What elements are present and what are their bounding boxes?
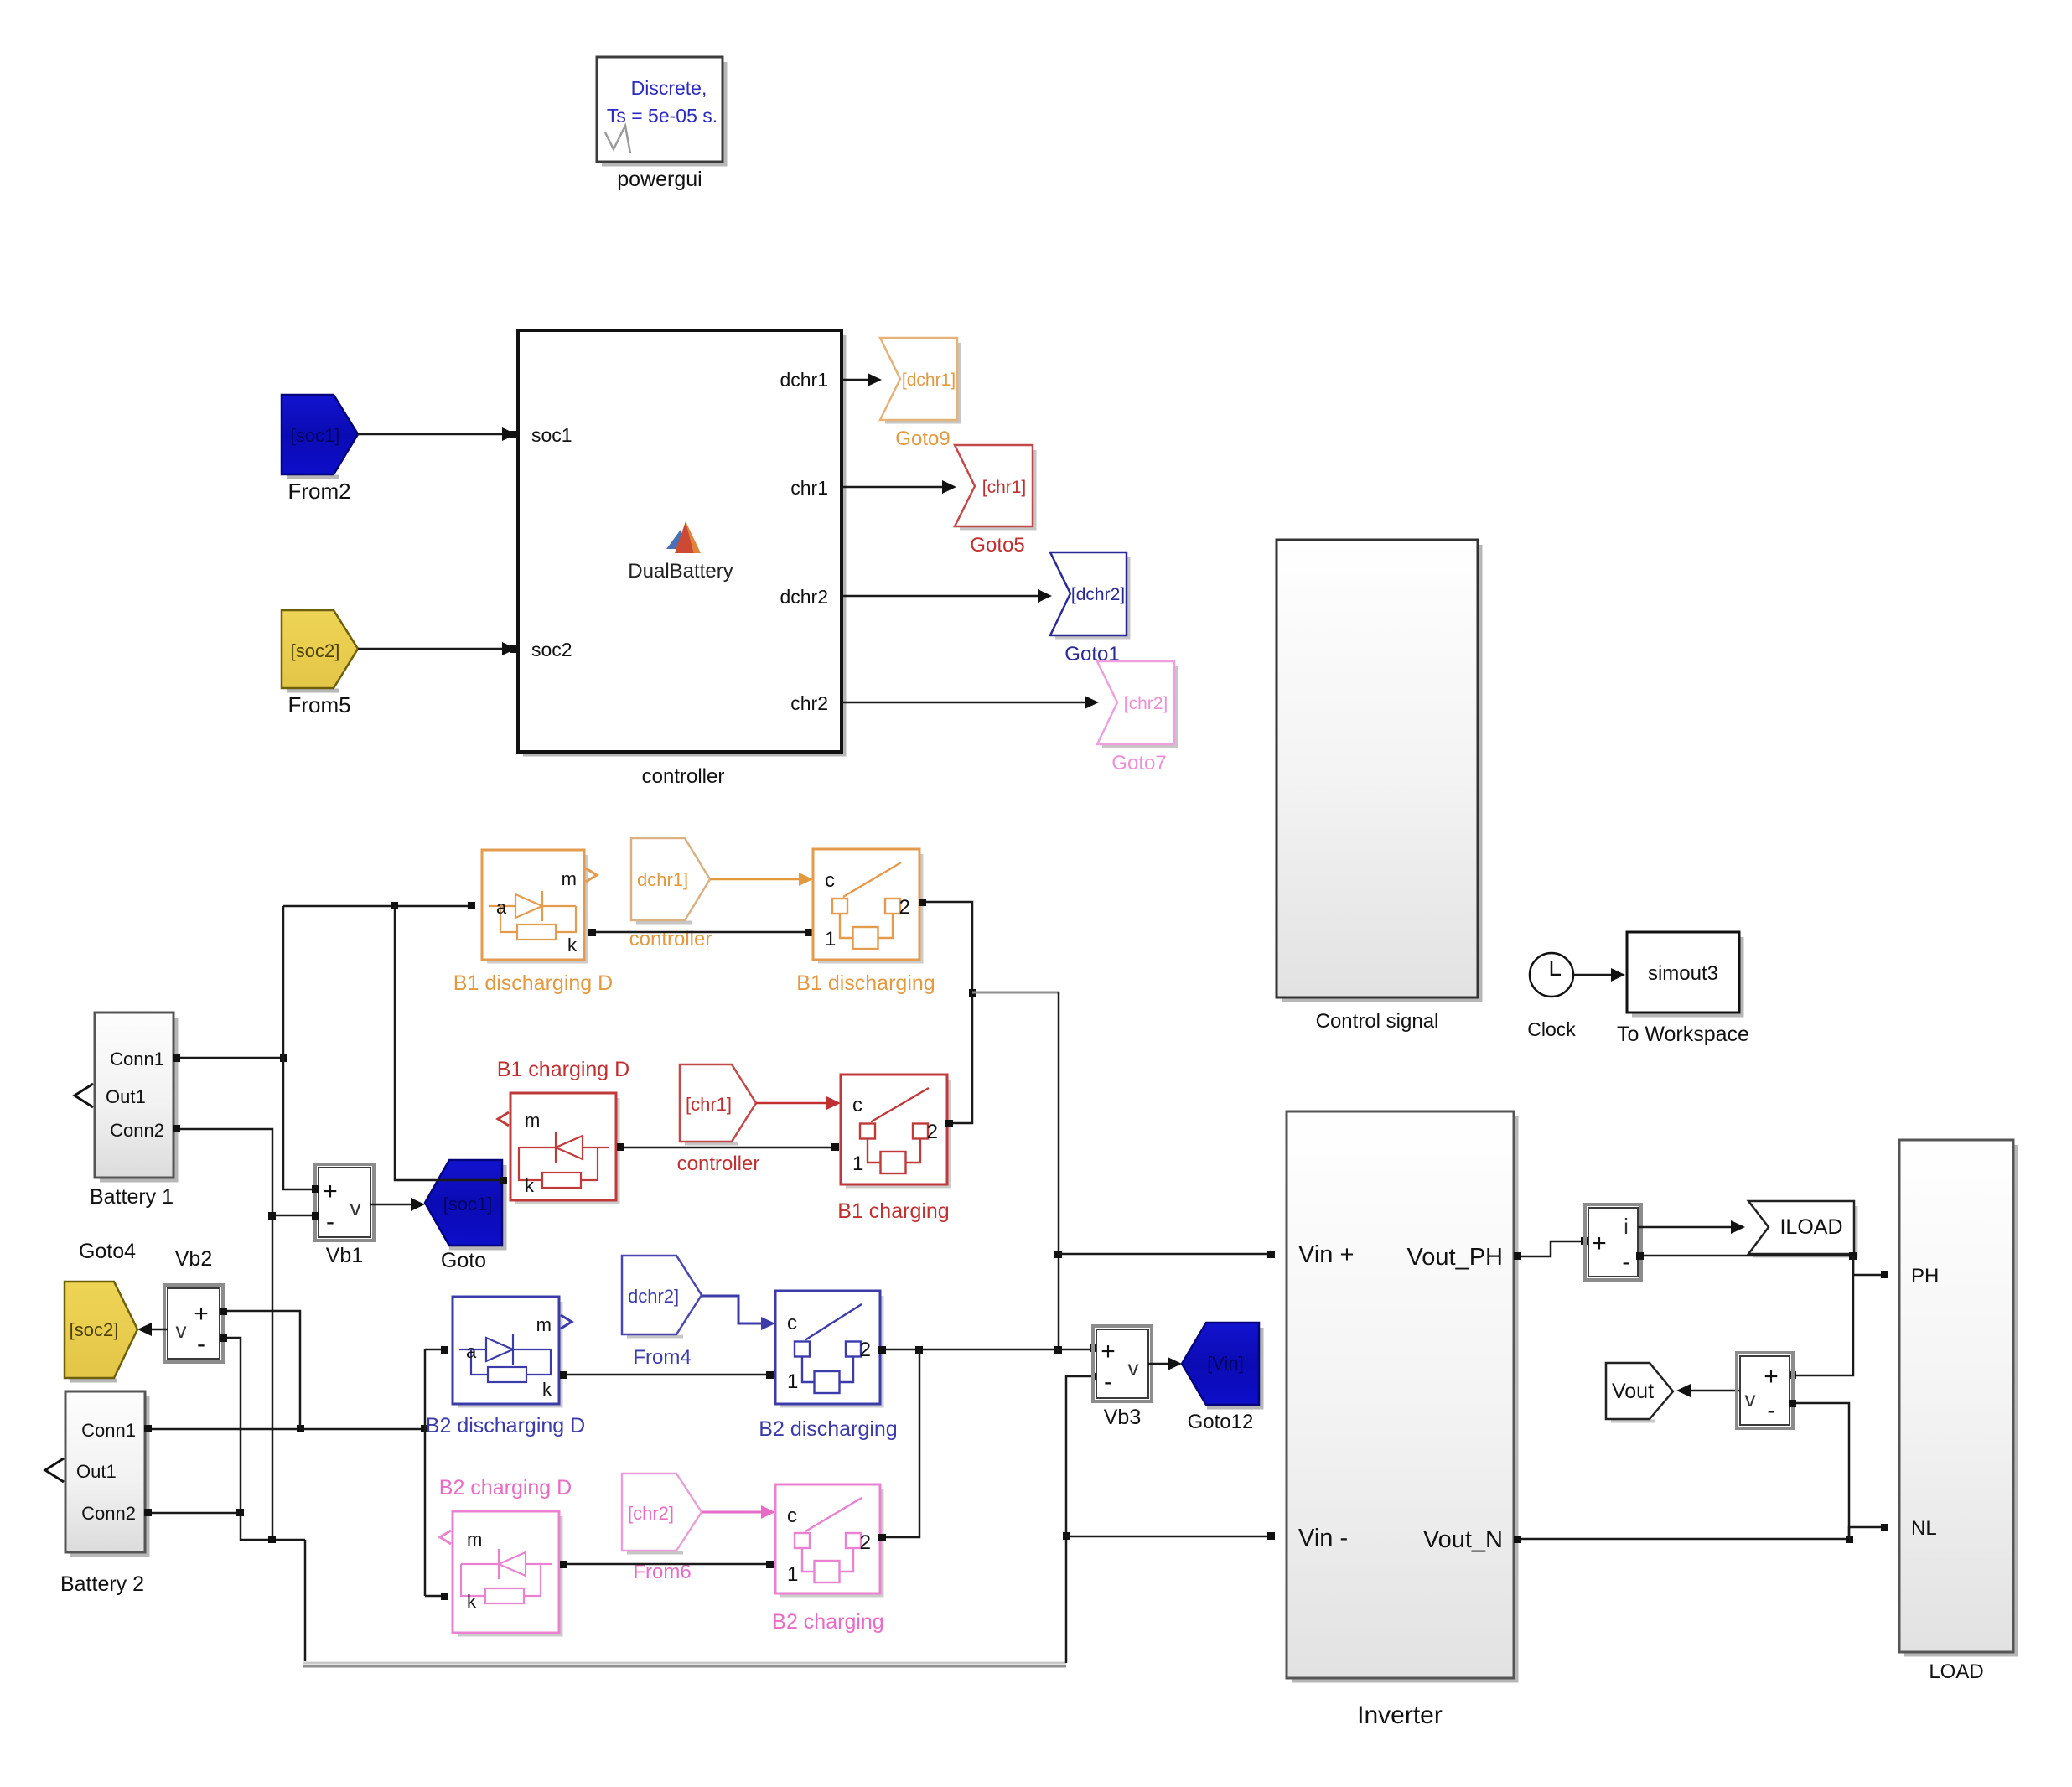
svg-text:+: +	[194, 1300, 209, 1328]
svg-text:Goto: Goto	[441, 1249, 486, 1272]
svg-text:c: c	[787, 1312, 797, 1334]
svg-text:Vb2: Vb2	[175, 1247, 212, 1271]
svg-text:LOAD: LOAD	[1929, 1660, 1983, 1683]
svg-text:k: k	[542, 1379, 552, 1400]
From chr1 label controller	[677, 1152, 760, 1175]
Goto7 label	[1111, 752, 1166, 774]
svg-text:2: 2	[860, 1339, 871, 1361]
wire current measurement minus to LOAD PH	[1636, 1252, 1888, 1278]
wire B2 discharging switch 2 to node	[878, 1344, 1097, 1354]
svg-text:B1 charging: B1 charging	[837, 1199, 949, 1223]
svg-text:k: k	[525, 1175, 535, 1196]
svg-text:B2 charging D: B2 charging D	[439, 1476, 572, 1500]
svg-text:1: 1	[825, 928, 836, 950]
svg-text:Goto12: Goto12	[1188, 1411, 1254, 1433]
wire Vout_N to LOAD NL	[1514, 1536, 1853, 1543]
svg-text:simout3: simout3	[1648, 962, 1718, 985]
wire junction to main positive node	[972, 992, 1059, 994]
svg-text:1: 1	[787, 1563, 798, 1586]
B1 discharging switch block	[813, 849, 922, 962]
wire B1 charging D a to switch 1	[617, 1143, 839, 1151]
svg-text:2: 2	[899, 896, 910, 919]
B2 discharging switch block	[775, 1291, 883, 1406]
wire Battery2 Conn2 to negative bus	[144, 1509, 244, 1516]
wire B2 charging switch 2 up	[878, 1349, 919, 1541]
svg-text:c: c	[852, 1094, 862, 1116]
svg-text:NL: NL	[1911, 1517, 1937, 1540]
From dchr1 label controller	[629, 928, 712, 950]
svg-text:Out1: Out1	[76, 1461, 117, 1482]
svg-text:To Workspace: To Workspace	[1617, 1023, 1749, 1046]
From4 label	[633, 1346, 691, 1369]
wire Battery1 Conn1 to B1 positive bus	[173, 1054, 287, 1062]
svg-text:Vb3: Vb3	[1104, 1406, 1141, 1429]
Control signal block	[1277, 540, 1480, 1000]
LOAD label	[1929, 1660, 1983, 1683]
From tag [chr1] (controller)	[680, 1064, 756, 1144]
wire B1 positive bus vertical	[283, 906, 319, 1193]
negative bus gray wire	[303, 1540, 1066, 1666]
svg-text:dchr2: dchr2	[780, 586, 828, 608]
From6 label	[633, 1561, 691, 1583]
svg-text:[soc1]: [soc1]	[291, 425, 340, 446]
svg-text:1: 1	[852, 1152, 863, 1175]
svg-text:Goto7: Goto7	[1111, 752, 1166, 774]
svg-text:Vin -: Vin -	[1298, 1525, 1348, 1551]
svg-text:i: i	[1624, 1214, 1629, 1239]
Vb2 voltage measurement block	[164, 1285, 223, 1362]
wire From2 to soc1	[358, 427, 517, 441]
svg-text:m: m	[562, 868, 577, 889]
svg-text:[chr1]: [chr1]	[982, 478, 1027, 497]
Goto5 label	[970, 534, 1024, 557]
svg-text:chr1: chr1	[790, 477, 828, 499]
wire node to voltmeter plus	[1789, 1256, 1853, 1379]
wire Vb1 to Goto	[370, 1198, 425, 1211]
svg-text:DualBattery: DualBattery	[628, 560, 733, 583]
svg-text:[chr1]: [chr1]	[686, 1094, 732, 1115]
B2 discharging D diode block	[453, 1297, 572, 1406]
load voltage measurement block	[1737, 1353, 1793, 1428]
B1 discharging label	[796, 971, 935, 995]
Goto label	[441, 1249, 486, 1272]
svg-text:soc1: soc1	[531, 424, 572, 446]
wire bus to B2 charging D cathode	[425, 1593, 448, 1600]
svg-text:m: m	[525, 1110, 540, 1131]
svg-text:Discrete,: Discrete,	[631, 77, 707, 99]
svg-text:dchr1]: dchr1]	[637, 869, 688, 890]
wire Vb2 plus leg	[220, 1308, 300, 1429]
svg-text:B2 charging: B2 charging	[772, 1610, 883, 1634]
svg-text:From2: From2	[287, 479, 350, 504]
svg-text:dchr2]: dchr2]	[628, 1286, 679, 1307]
svg-text:1: 1	[787, 1370, 798, 1393]
Goto12 label	[1188, 1411, 1254, 1433]
svg-text:v: v	[176, 1318, 187, 1343]
positive node vertical to Vin+ and Vb3	[1054, 992, 1062, 1354]
wire voltmeter to Vout	[1676, 1384, 1740, 1397]
Goto4 label	[79, 1240, 136, 1263]
From4 tag [dchr2]	[622, 1256, 702, 1337]
B2 discharging label	[759, 1417, 897, 1441]
wire B1 discharging switch 2 down	[919, 899, 976, 1127]
ILOAD goto tag	[1748, 1201, 1857, 1256]
Vb1 voltage measurement block	[315, 1164, 374, 1241]
svg-text:v: v	[1128, 1355, 1139, 1380]
B1 charging label	[837, 1199, 949, 1223]
Clock block	[1530, 953, 1573, 997]
From tag [dchr1] (controller)	[631, 838, 710, 923]
svg-text:+: +	[1592, 1230, 1607, 1257]
svg-text:a: a	[496, 897, 507, 918]
svg-text:Goto9: Goto9	[895, 427, 950, 450]
svg-text:Battery 2: Battery 2	[60, 1572, 144, 1596]
Battery 2 block	[45, 1391, 148, 1555]
wire bus to B1 charging D cathode	[395, 906, 507, 1184]
svg-text:Vb1: Vb1	[326, 1244, 363, 1267]
Goto7 tag [chr2]	[1097, 661, 1177, 747]
Goto9 tag [dchr1]	[880, 338, 960, 422]
B1 charging D diode block	[498, 1093, 619, 1203]
Control signal label	[1316, 1010, 1439, 1033]
svg-text:-: -	[197, 1330, 205, 1358]
wire bus to B1 discharging D anode	[283, 902, 475, 909]
Goto5 tag [chr1]	[955, 445, 1035, 529]
svg-text:From4: From4	[633, 1346, 691, 1369]
svg-text:v: v	[350, 1195, 361, 1220]
svg-text:controller: controller	[677, 1152, 760, 1175]
svg-text:Goto4: Goto4	[79, 1240, 136, 1263]
svg-text:[Vin]: [Vin]	[1207, 1353, 1244, 1374]
svg-text:dchr1: dchr1	[780, 369, 828, 391]
wire to inverter Vin+	[1059, 1251, 1275, 1258]
svg-text:Conn2: Conn2	[81, 1503, 136, 1524]
wire chr1 to B1 charging switch c	[756, 1096, 841, 1110]
From5 tag [soc2]	[282, 610, 358, 691]
Inverter label	[1357, 1702, 1443, 1729]
svg-text:Clock: Clock	[1527, 1018, 1576, 1040]
Vb2 label	[175, 1247, 212, 1271]
svg-text:Control signal: Control signal	[1316, 1010, 1439, 1033]
wire B2 charging D a to switch 1	[560, 1561, 774, 1568]
wire Battery1 Conn2 down	[173, 1125, 272, 1540]
From2 label	[287, 479, 350, 504]
svg-text:B2 discharging D: B2 discharging D	[426, 1414, 585, 1437]
svg-text:Battery 1: Battery 1	[90, 1185, 174, 1209]
svg-text:[soc2]: [soc2]	[291, 640, 340, 661]
svg-text:m: m	[467, 1529, 482, 1550]
svg-text:Inverter: Inverter	[1357, 1702, 1443, 1729]
svg-text:From5: From5	[287, 692, 350, 717]
svg-text:a: a	[466, 1341, 477, 1362]
svg-text:Goto5: Goto5	[970, 534, 1024, 557]
svg-text:Out1: Out1	[106, 1086, 146, 1107]
svg-text:m: m	[536, 1314, 552, 1335]
wire to Vb1 minus	[268, 1212, 319, 1220]
controller label	[642, 765, 725, 788]
Battery 1 label	[90, 1185, 174, 1209]
B2 charging switch block	[775, 1484, 883, 1596]
svg-text:+: +	[1764, 1363, 1779, 1391]
wire Vout_PH to current measurement	[1514, 1237, 1588, 1260]
Vout goto tag	[1606, 1363, 1673, 1422]
svg-text:c: c	[825, 869, 835, 892]
wire bus to B2 discharging D anode	[425, 1346, 448, 1354]
Battery 2 label	[60, 1572, 144, 1596]
wire i to ILOAD	[1638, 1220, 1745, 1234]
svg-text:2: 2	[927, 1121, 938, 1143]
svg-text:-: -	[326, 1208, 334, 1235]
current measurement block	[1585, 1204, 1641, 1280]
svg-text:powergui: powergui	[617, 168, 702, 191]
wire node to voltmeter minus	[1789, 1400, 1849, 1539]
svg-text:[chr2]: [chr2]	[1124, 694, 1168, 713]
B2 charging D label	[439, 1476, 572, 1500]
B1 discharging D label	[453, 971, 613, 995]
From5 label	[287, 692, 350, 717]
Vb3 label	[1104, 1406, 1141, 1429]
wire Vb2 minus down	[220, 1334, 305, 1543]
wire chr2 to B2 charging switch c	[702, 1505, 775, 1519]
svg-text:[chr2]: [chr2]	[628, 1503, 674, 1524]
From2 tag [soc1]	[282, 395, 358, 477]
wire B2 discharging D k to switch 1	[560, 1371, 774, 1379]
B2 discharging D label	[426, 1414, 585, 1437]
svg-text:Conn1: Conn1	[110, 1049, 164, 1070]
simout3 To Workspace block	[1627, 932, 1742, 1015]
svg-text:[dchr1]: [dchr1]	[902, 370, 956, 390]
svg-text:-: -	[1622, 1249, 1629, 1275]
LOAD block	[1899, 1140, 2016, 1655]
Vb3 voltage measurement block	[1093, 1326, 1152, 1401]
wire Vb3 to Goto12	[1148, 1357, 1182, 1370]
wire NL jog	[1849, 1524, 1888, 1539]
svg-text:controller: controller	[642, 765, 725, 788]
wire dchr2 to Goto1	[842, 589, 1052, 603]
svg-text:v: v	[1745, 1386, 1756, 1411]
Battery 1 block	[75, 1013, 176, 1180]
wire dchr1 to B1 discharging switch c	[710, 873, 813, 886]
wire negative bus up to Vb3 minus and Vin-	[1063, 1373, 1099, 1663]
svg-text:c: c	[787, 1505, 797, 1527]
svg-text:ILOAD: ILOAD	[1779, 1215, 1842, 1239]
svg-text:B1 discharging: B1 discharging	[796, 971, 935, 995]
wire Battery2 Conn1 to B2 positive bus	[144, 1425, 428, 1432]
B1 charging D label	[497, 1058, 629, 1081]
svg-text:+: +	[1101, 1338, 1116, 1365]
svg-text:-: -	[1767, 1397, 1774, 1423]
wire dchr2 to B2 discharging switch c	[702, 1296, 775, 1330]
svg-text:Conn2: Conn2	[110, 1120, 164, 1141]
B2 charging D diode block	[440, 1511, 562, 1635]
wire chr1 to Goto5	[842, 480, 956, 494]
wire Clock to simout3	[1573, 968, 1625, 982]
To Workspace label	[1617, 1023, 1749, 1046]
B1 discharging D diode block	[482, 850, 597, 962]
svg-text:Vin +: Vin +	[1298, 1241, 1354, 1268]
svg-text:Vout_PH: Vout_PH	[1407, 1244, 1503, 1271]
Goto9 label	[895, 427, 950, 450]
svg-text:soc2: soc2	[531, 639, 572, 660]
powergui label	[617, 168, 702, 191]
wire B2 positive bus vertical	[424, 1349, 427, 1596]
svg-text:2: 2	[860, 1531, 871, 1554]
svg-text:k: k	[467, 1591, 477, 1612]
svg-text:B1 charging D: B1 charging D	[497, 1058, 629, 1081]
svg-text:Conn1: Conn1	[81, 1420, 136, 1441]
svg-text:B2 discharging: B2 discharging	[759, 1417, 897, 1441]
wire dchr1 to Goto9	[842, 373, 882, 386]
B1 charging switch block	[841, 1075, 950, 1187]
svg-text:[dchr2]: [dchr2]	[1071, 585, 1125, 604]
svg-text:B1 discharging D: B1 discharging D	[453, 971, 613, 995]
wire B1 discharging D k to switch 1	[588, 929, 812, 936]
svg-text:Vout_N: Vout_N	[1423, 1526, 1503, 1553]
svg-text:chr2: chr2	[790, 692, 828, 714]
Inverter block	[1287, 1111, 1516, 1681]
svg-text:k: k	[567, 935, 578, 956]
wire Vb2 to Goto4	[137, 1323, 168, 1336]
Goto1 label	[1064, 643, 1119, 666]
wire From5 to soc2	[358, 642, 517, 655]
wire chr2 to Goto7	[842, 696, 1099, 709]
Goto1 tag [dchr2]	[1050, 552, 1129, 638]
Vb1 label	[326, 1244, 363, 1267]
Goto tag [soc1]	[425, 1160, 505, 1248]
wire to inverter Vin-	[1066, 1532, 1275, 1540]
svg-text:Ts = 5e-05 s.: Ts = 5e-05 s.	[607, 105, 717, 127]
powergui block	[597, 57, 725, 164]
Clock label	[1527, 1018, 1576, 1040]
svg-text:PH: PH	[1911, 1265, 1939, 1287]
svg-text:-: -	[1104, 1368, 1112, 1396]
From6 tag [chr2]	[622, 1474, 702, 1553]
Goto4 tag [soc2]	[65, 1282, 137, 1380]
svg-text:[soc1]: [soc1]	[443, 1194, 493, 1215]
MATLAB logo in controller	[666, 521, 701, 553]
controller subsystem block	[518, 330, 844, 754]
Goto12 tag [Vin]	[1182, 1323, 1261, 1407]
svg-text:[soc2]: [soc2]	[70, 1319, 119, 1340]
svg-text:+: +	[323, 1178, 338, 1205]
svg-text:Vout: Vout	[1612, 1380, 1654, 1403]
B2 charging label	[772, 1610, 883, 1634]
